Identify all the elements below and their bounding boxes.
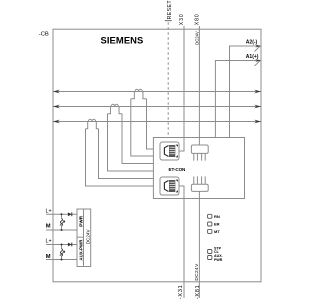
- svg-text:DC24V: DC24V: [85, 229, 90, 245]
- svg-text:DC24V: DC24V: [195, 31, 200, 45]
- wire X81 DC24V: [198, 191, 200, 298]
- junction dot V2 top: [61, 244, 63, 246]
- wire cable P3 left: [86, 129, 154, 186]
- varistor V2 branch: [61, 245, 63, 249]
- svg-text:DC24V: DC24V: [194, 263, 200, 281]
- svg-text:ET-CON: ET-CON: [169, 167, 187, 172]
- wire A1(+): [215, 61, 260, 138]
- RESET terminal tick: [165, 20, 172, 22]
- wire M (2): [46, 259, 77, 261]
- RJ45 jack X30: [160, 142, 179, 160]
- svg-text:M: M: [46, 224, 51, 230]
- svg-text:PWR: PWR: [214, 258, 223, 262]
- svg-text:SIEMENS: SIEMENS: [101, 35, 144, 46]
- svg-text:L+: L+: [46, 208, 52, 214]
- wire M (1): [46, 229, 77, 231]
- junction dot V1 top: [61, 213, 63, 215]
- power connector X81 body: [191, 184, 208, 191]
- arrow bus1 left: [53, 90, 60, 94]
- svg-text:MT: MT: [214, 229, 220, 234]
- wire L+ (2): [46, 244, 77, 246]
- arrow bus1 right: [254, 90, 261, 94]
- LED AUX PWR: [208, 256, 212, 260]
- svg-text:A1(+): A1(+): [246, 54, 259, 60]
- svg-text:X30: X30: [179, 13, 185, 25]
- wire A2(-): [230, 46, 261, 138]
- wire RESET dashed: [167, 22, 169, 137]
- arrow bus2 left: [53, 105, 60, 109]
- outer enclosure box -CB: [53, 29, 261, 282]
- LED MT: [208, 229, 212, 233]
- svg-text:RESET: RESET: [167, 0, 173, 19]
- varistor V2 body: [60, 249, 62, 257]
- junction dot V2 bottom: [61, 259, 63, 261]
- svg-text:ER: ER: [214, 222, 220, 227]
- arrowhead A1: [255, 59, 261, 62]
- svg-text:PWR: PWR: [78, 215, 83, 226]
- arrow bus3 right: [254, 120, 261, 124]
- wire cable P1 left: [131, 99, 154, 156]
- svg-text:-X31: -X31: [178, 285, 184, 299]
- wire X31: [179, 186, 184, 298]
- varistor V1 body: [60, 219, 62, 227]
- bus line 3: [53, 121, 261, 123]
- RJ45 jack X31: [160, 177, 179, 195]
- bus line 2: [53, 106, 261, 108]
- junction dot V1 bottom: [61, 229, 63, 231]
- svg-text:-X81: -X81: [195, 285, 201, 299]
- svg-text:-CB: -CB: [39, 31, 49, 37]
- bus line 1: [53, 91, 261, 93]
- connector plug P1 on bus1: [131, 89, 147, 98]
- wire cable P1 right: [147, 99, 154, 149]
- PWR module box: [77, 209, 91, 267]
- wire cable P2 right: [122, 114, 153, 164]
- diode D1: [68, 212, 72, 216]
- LED ER: [208, 222, 212, 226]
- varistor V1 branch: [61, 214, 63, 218]
- arrow bus3 left: [53, 120, 60, 124]
- svg-text:AUX-PWR: AUX-PWR: [78, 239, 83, 261]
- svg-text:L+: L+: [46, 239, 52, 245]
- PWR box divider horizontal: [77, 236, 84, 238]
- LED RN: [208, 214, 212, 218]
- connector plug P2 on bus2: [108, 104, 123, 113]
- wire L+ (1): [46, 213, 77, 215]
- arrowhead A2: [255, 45, 261, 48]
- power connector X81 pins: [194, 176, 205, 184]
- arrow bus2 right: [254, 105, 261, 109]
- PWR box divider vertical: [83, 209, 85, 267]
- power connector X80 body: [191, 145, 208, 153]
- svg-text:X80: X80: [194, 13, 200, 25]
- diode D2: [68, 243, 72, 247]
- wire cable P3 right: [99, 129, 154, 179]
- wire cable P2 left: [108, 114, 154, 171]
- svg-text:RN: RN: [214, 214, 220, 219]
- power connector X80 pins: [194, 153, 205, 160]
- wire X80 DC24V: [198, 26, 200, 145]
- connector plug P3 on bus3: [86, 119, 99, 128]
- LED STP CL: [208, 250, 212, 254]
- wire X30: [179, 26, 184, 151]
- ET-CON module box: [153, 138, 244, 199]
